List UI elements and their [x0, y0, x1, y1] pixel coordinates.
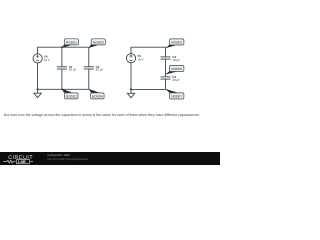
wire: V4 bottom to bottom rail [38, 63, 89, 89]
junction dot branch1 top [61, 46, 63, 48]
svg-text:NODE4: NODE4 [92, 94, 103, 98]
node flag NODE5 [165, 39, 184, 48]
svg-text:LAB: LAB [18, 160, 26, 164]
caption text [4, 113, 218, 117]
node flag NODE1 [62, 39, 79, 48]
svg-text:NODE6: NODE6 [171, 67, 182, 71]
node flag NODE4 [89, 89, 105, 99]
LAB chip [16, 159, 30, 163]
capacitor C1 [57, 67, 67, 69]
node flag NODE6 [165, 65, 184, 74]
wire: branch 2 upper lead [88, 47, 90, 67]
wire: branch 2 lower lead [88, 69, 90, 89]
wire: V5 bottom to bottom rail [131, 63, 166, 90]
C2 value label [96, 65, 104, 72]
ground (left) [34, 89, 41, 97]
CircuitLab logo [0, 152, 46, 165]
C3 value label [172, 55, 180, 62]
svg-text:NODE5: NODE5 [171, 41, 182, 45]
ground (right) [127, 89, 134, 97]
credit line 1 [48, 154, 71, 157]
junction dot at V5/ground tee [130, 88, 132, 90]
svg-text:NODE3: NODE3 [93, 40, 104, 44]
V5 label [137, 54, 143, 62]
svg-text:20 µF: 20 µF [96, 68, 104, 72]
svg-text:10 µF: 10 µF [172, 58, 180, 62]
svg-text:10 µF: 10 µF [69, 68, 77, 72]
junction dot at V4/ground tee [37, 88, 39, 90]
capacitor C4 [161, 77, 171, 79]
svg-text:10 V: 10 V [137, 58, 143, 62]
credit line 2 [48, 158, 89, 161]
wire: middle lead between C3 and C4 [165, 59, 167, 77]
node flag NODE3 [89, 39, 106, 48]
voltage source V4 [33, 54, 42, 63]
C1 value label [69, 65, 77, 72]
voltage source V5 [126, 54, 135, 63]
svg-text:NODE7: NODE7 [171, 95, 182, 99]
C4 value label [172, 75, 180, 82]
wire: branch 1 upper lead [61, 47, 63, 67]
wire: series branch top lead [165, 47, 167, 57]
node flag NODE2 [62, 89, 79, 99]
schematic canvas [0, 0, 220, 165]
wire: V5 top to top rail [131, 47, 166, 53]
wire: branch 1 lower lead [61, 69, 63, 89]
capacitor C2 [84, 67, 94, 69]
footer bar [0, 152, 220, 165]
svg-text:NODE1: NODE1 [66, 40, 77, 44]
V4 label [44, 54, 50, 62]
svg-text:NODE2: NODE2 [66, 94, 77, 98]
svg-text:10 V: 10 V [44, 58, 50, 62]
capacitor C3 [161, 57, 171, 59]
resistor zigzag [3, 160, 15, 163]
wire: V4 top to top rail [38, 47, 89, 54]
node flag NODE7 [165, 89, 184, 99]
svg-text:20 µF: 20 µF [172, 78, 180, 82]
junction dot branch1 bottom [61, 88, 63, 90]
wire: series branch bottom lead [165, 79, 167, 89]
